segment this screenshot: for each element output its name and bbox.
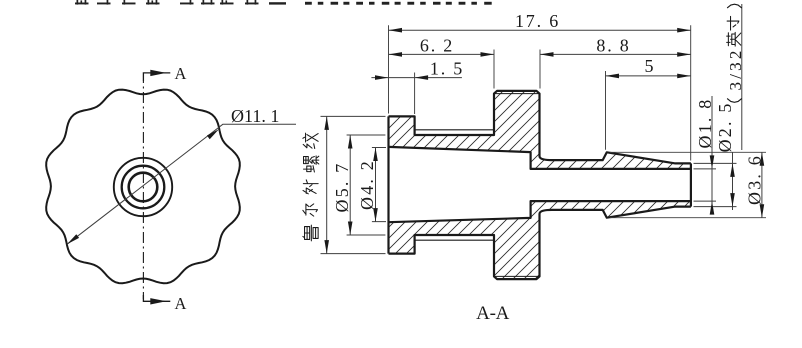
- svg-text:A: A: [175, 294, 187, 313]
- luer thread crest lines (thin): [415, 130, 494, 240]
- svg-text:Ø2. 5: Ø2. 5: [715, 101, 735, 152]
- section arrow top: [143, 73, 170, 81]
- svg-text:Ø5. 7: Ø5. 7: [332, 162, 352, 213]
- dim Ø11.1 leader: [67, 124, 296, 244]
- dim Ø4.2: [375, 148, 377, 222]
- section cut centerline A-A: [142, 81, 144, 299]
- svg-text:Ø11. 1: Ø11. 1: [231, 106, 279, 126]
- knob hub circle middle: [122, 166, 165, 209]
- section solid top half (hatched): [389, 91, 691, 169]
- svg-text:8. 8: 8. 8: [596, 35, 630, 55]
- svg-text:1. 5: 1. 5: [430, 58, 464, 78]
- dim Ø5.7: [349, 135, 351, 235]
- dim 17.6: [389, 29, 691, 31]
- dim Ø2.5: [732, 153, 734, 211]
- dim 6.2: [389, 53, 495, 55]
- disc chamfer edge lines: [494, 94, 540, 277]
- scallop knob outline (left view): [46, 90, 240, 284]
- tip end face: [690, 163, 692, 206]
- svg-text:3/32: 3/32: [726, 47, 745, 90]
- knob hub circle outer: [114, 158, 172, 216]
- dim Ø1.8: [711, 96, 713, 215]
- dim flange OD (luer thread) line: [326, 116, 328, 253]
- luer cone bore + channel: [389, 147, 691, 222]
- svg-text:5: 5: [645, 56, 654, 76]
- svg-text:A: A: [175, 64, 187, 83]
- svg-text:Ø4. 2: Ø4. 2: [357, 159, 377, 210]
- left end face: [387, 116, 389, 253]
- dim Ø3.6: [761, 152, 763, 217]
- svg-text:6. 2: 6. 2: [420, 35, 454, 55]
- knob bore circle inner: [129, 173, 158, 202]
- clipped title text fragments: [75, 0, 492, 5]
- svg-text:A-A: A-A: [476, 303, 509, 324]
- svg-text:Ø1. 8: Ø1. 8: [695, 98, 715, 149]
- svg-text:Ø3. 6: Ø3. 6: [745, 154, 765, 205]
- text 鲁尔外螺纹 (luer external thread): [303, 225, 318, 241]
- extension lines: [321, 25, 767, 253]
- dim 5: [606, 75, 691, 77]
- fitting outline top: [389, 91, 691, 163]
- fitting outline bottom: [389, 207, 691, 280]
- note (3/32英寸): [726, 4, 745, 150]
- dim 8.8: [540, 53, 691, 55]
- dim 1.5: [371, 77, 462, 79]
- section solid bottom half (hatched): [389, 201, 691, 279]
- svg-text:17. 6: 17. 6: [515, 11, 560, 31]
- section arrow bottom: [143, 295, 170, 301]
